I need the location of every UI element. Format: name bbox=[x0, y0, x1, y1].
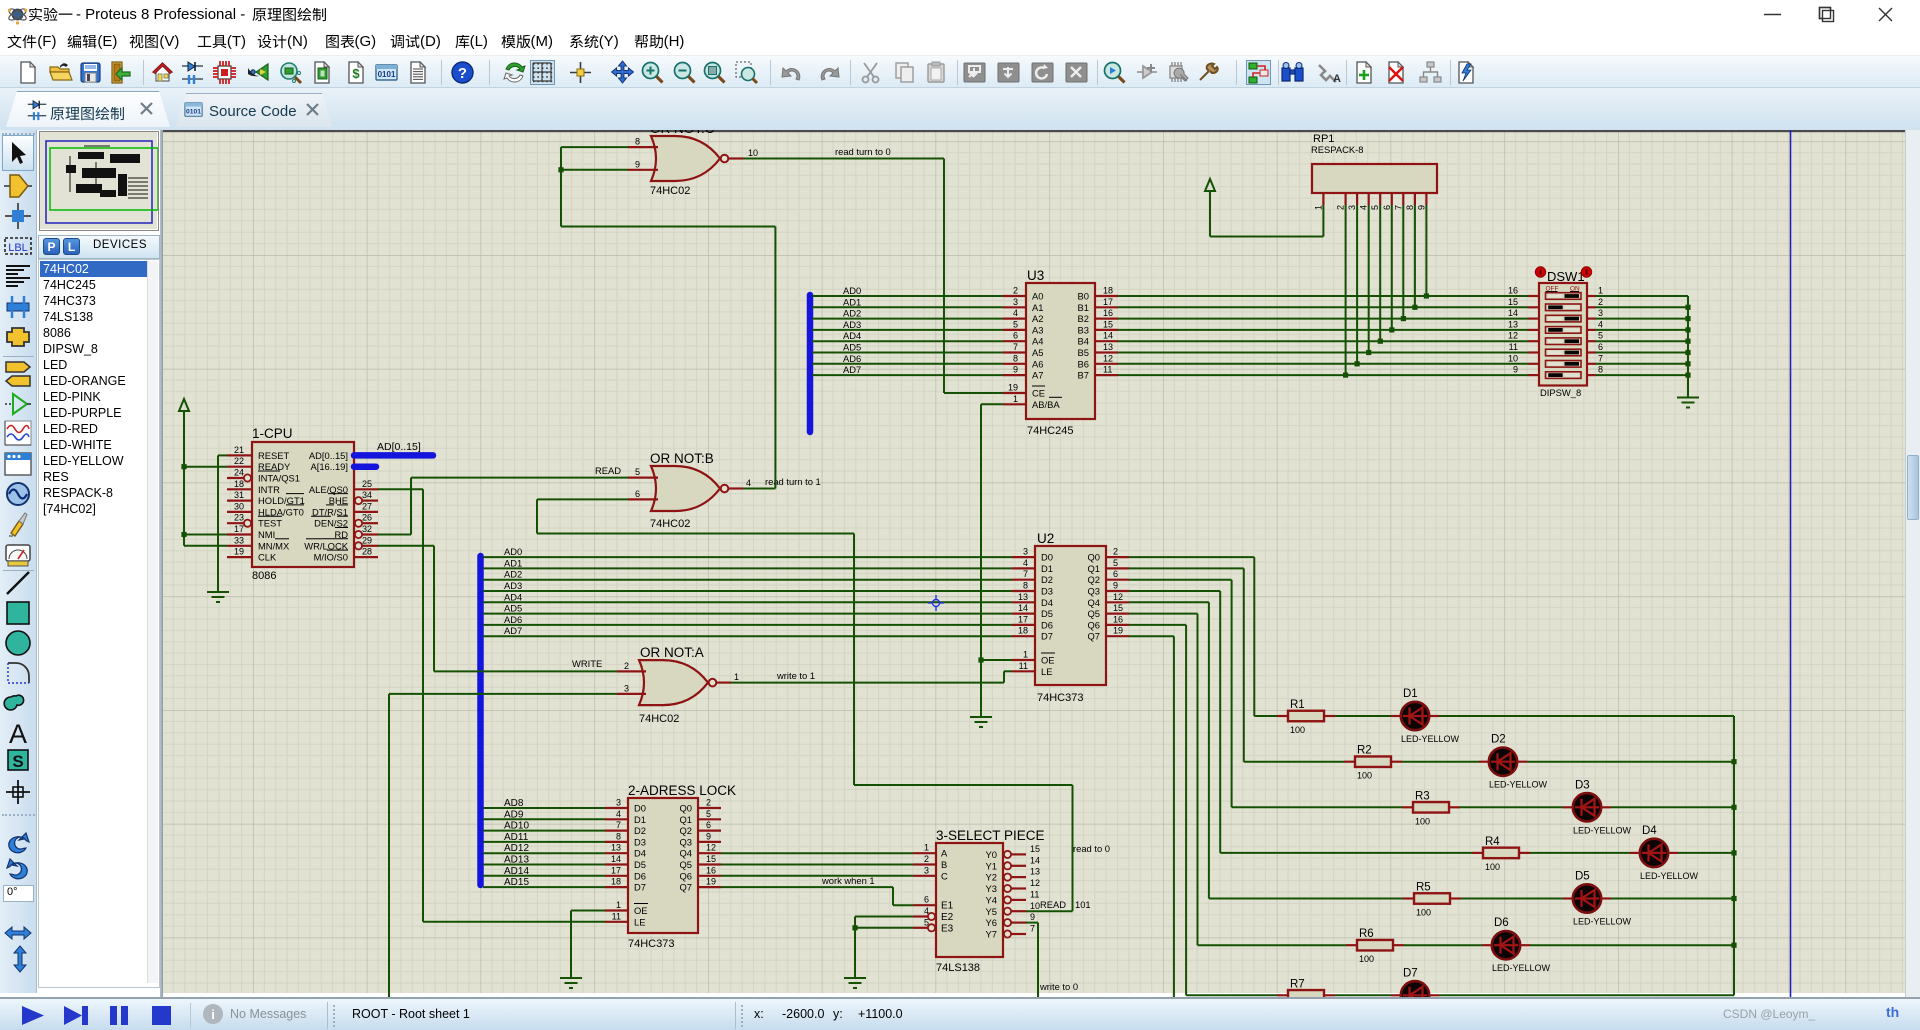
svg-text:6: 6 bbox=[1382, 205, 1392, 210]
svg-text:74HC373: 74HC373 bbox=[1037, 692, 1083, 704]
wire AD1 bus to U3 A1 bbox=[812, 306, 1003, 308]
svg-text:MN/MX: MN/MX bbox=[258, 540, 290, 551]
wire AD8 bus to U1 D0 bbox=[483, 807, 605, 809]
wire Q2 to R3 bbox=[1232, 806, 1402, 808]
svg-text:D2: D2 bbox=[1491, 734, 1506, 746]
svg-text:AD2: AD2 bbox=[504, 569, 522, 580]
wire U2 OE h bbox=[981, 659, 1012, 661]
svg-text:Q3: Q3 bbox=[1087, 586, 1100, 597]
svg-text:4: 4 bbox=[924, 906, 929, 916]
diode D4 LED-YELLOW bbox=[1640, 839, 1668, 867]
wire Q3 to R4 bbox=[1220, 852, 1472, 854]
svg-text:10: 10 bbox=[1508, 353, 1518, 363]
svg-text:B6: B6 bbox=[1078, 358, 1089, 369]
svg-text:4: 4 bbox=[746, 478, 751, 488]
DSW1 left pins bbox=[1528, 295, 1539, 297]
svg-text:D4: D4 bbox=[634, 848, 646, 859]
svg-text:101: 101 bbox=[1075, 899, 1091, 910]
bus A[16..19] from CPU bbox=[354, 463, 376, 470]
svg-text:10: 10 bbox=[748, 148, 758, 158]
svg-text:Y5: Y5 bbox=[986, 906, 997, 917]
junction LED rail 1 bbox=[1731, 759, 1736, 764]
svg-text:AD3: AD3 bbox=[504, 580, 522, 591]
svg-text:Y3: Y3 bbox=[986, 883, 997, 894]
svg-text:9: 9 bbox=[1416, 205, 1426, 210]
svg-text:Y7: Y7 bbox=[986, 929, 997, 940]
svg-text:INTA/QS1: INTA/QS1 bbox=[258, 473, 300, 484]
U1 right pins bbox=[698, 807, 721, 809]
svg-text:18: 18 bbox=[1018, 626, 1028, 636]
wire U1 OE v bbox=[570, 911, 572, 979]
svg-text:74HC02: 74HC02 bbox=[650, 518, 690, 530]
wire read-turn-to-0 h bbox=[743, 158, 944, 160]
R4 pins bbox=[1472, 852, 1483, 854]
wire LED rail bbox=[1733, 716, 1735, 995]
wire RP1 pin6 pullup bbox=[1391, 205, 1393, 330]
svg-text:6: 6 bbox=[1113, 569, 1118, 579]
wire R5 to D5 bbox=[1461, 898, 1563, 900]
svg-text:AD11: AD11 bbox=[504, 832, 529, 843]
svg-text:E1: E1 bbox=[941, 901, 954, 912]
svg-text:1: 1 bbox=[616, 900, 621, 910]
wire WRITE: CPU WR to corner bbox=[378, 545, 434, 547]
svg-text:Y4: Y4 bbox=[986, 894, 997, 905]
wire D2 to rail bbox=[1527, 761, 1734, 763]
svg-text:B2: B2 bbox=[1078, 313, 1089, 324]
svg-text:9: 9 bbox=[1030, 912, 1035, 922]
svg-text:15: 15 bbox=[706, 854, 716, 864]
svg-text:AD1: AD1 bbox=[843, 296, 861, 307]
svg-text:5: 5 bbox=[1113, 558, 1118, 568]
wire AD12 bus to U1 D4 bbox=[483, 852, 605, 854]
svg-text:R2: R2 bbox=[1357, 745, 1372, 757]
svg-text:8: 8 bbox=[1013, 353, 1018, 363]
svg-text:D1: D1 bbox=[634, 814, 646, 825]
svg-text:11: 11 bbox=[1019, 661, 1028, 671]
svg-text:CE: CE bbox=[1032, 388, 1045, 399]
svg-text:M/IO/S0: M/IO/S0 bbox=[314, 552, 348, 563]
DSW1 indicator circle left bbox=[1535, 267, 1545, 277]
svg-text:16: 16 bbox=[1103, 308, 1113, 318]
junction LED rail 3 bbox=[1731, 850, 1736, 855]
svg-text:Y2: Y2 bbox=[986, 872, 997, 883]
svg-text:OE: OE bbox=[1041, 655, 1055, 666]
svg-text:U2: U2 bbox=[1037, 531, 1054, 546]
svg-text:2: 2 bbox=[1113, 547, 1118, 557]
resistor R2 bbox=[1355, 756, 1391, 767]
wire AD0 bus to U3 A0 bbox=[812, 295, 1003, 297]
junction DSW rail 6 bbox=[1685, 361, 1690, 366]
wire feedback h2 bbox=[854, 784, 1073, 786]
svg-text:AD7: AD7 bbox=[504, 625, 522, 636]
wire Q3 vertical bbox=[1219, 591, 1221, 853]
svg-text:D4: D4 bbox=[1041, 597, 1053, 608]
svg-text:14: 14 bbox=[611, 854, 621, 864]
svg-text:LED-YELLOW: LED-YELLOW bbox=[1492, 963, 1551, 973]
svg-text:B4: B4 bbox=[1078, 336, 1089, 347]
svg-text:D5: D5 bbox=[634, 859, 646, 870]
wire READ vertical bbox=[410, 478, 412, 535]
wire U3 B2 to DSW1 bbox=[1118, 318, 1528, 320]
wire feedback to Y5 bbox=[1026, 910, 1073, 912]
junction RP1 pin2 bbox=[1343, 373, 1348, 378]
svg-text:7: 7 bbox=[1023, 569, 1028, 579]
svg-text:Q1: Q1 bbox=[679, 814, 692, 825]
svg-text:AD[0..15]: AD[0..15] bbox=[377, 441, 421, 453]
svg-text:74HC373: 74HC373 bbox=[628, 938, 674, 950]
junction power-READY bbox=[181, 464, 186, 469]
svg-text:D0: D0 bbox=[1041, 552, 1053, 563]
wire DSW1 pin4 to rail bbox=[1596, 329, 1689, 331]
svg-text:D5: D5 bbox=[1041, 608, 1053, 619]
svg-text:17: 17 bbox=[1103, 297, 1113, 307]
svg-text:AD5: AD5 bbox=[504, 603, 522, 614]
wire ALE vertical bbox=[422, 489, 424, 922]
svg-text:5: 5 bbox=[924, 917, 929, 927]
U3 right pins bbox=[1095, 295, 1118, 297]
svg-text:D6: D6 bbox=[1494, 917, 1509, 929]
wire ALE to U1 LE bbox=[423, 921, 605, 923]
svg-text:read turn to 1: read turn to 1 bbox=[765, 476, 821, 487]
svg-text:RESET: RESET bbox=[258, 450, 290, 461]
svg-text:0101: 0101 bbox=[186, 108, 201, 115]
cursor crosshair bbox=[928, 595, 944, 611]
svg-text:4: 4 bbox=[616, 809, 621, 819]
svg-text:5: 5 bbox=[706, 809, 711, 819]
wire Q1 to R2 bbox=[1244, 761, 1344, 763]
R1 pins bbox=[1277, 715, 1288, 717]
wire U3 B0 to DSW1 bbox=[1118, 295, 1528, 297]
wire AD2 bus to U3 A2 bbox=[812, 318, 1003, 320]
wire AD6 bus to U3 A6 bbox=[812, 363, 1003, 365]
junction RP1 pin7 bbox=[1401, 316, 1406, 321]
wire AD11 bus to U1 D3 bbox=[483, 841, 605, 843]
resistor R4 bbox=[1483, 848, 1519, 859]
svg-text:17: 17 bbox=[611, 865, 621, 875]
svg-text:OR NOT:A: OR NOT:A bbox=[640, 645, 704, 660]
svg-text:Q4: Q4 bbox=[1087, 597, 1100, 608]
R6 pins bbox=[1346, 944, 1357, 946]
svg-text:OR NOT:C: OR NOT:C bbox=[650, 130, 715, 136]
svg-text:E2: E2 bbox=[941, 912, 954, 923]
svg-text:AD2: AD2 bbox=[843, 308, 861, 319]
wire U2 Q3 h bbox=[1129, 590, 1220, 592]
wire feedback v2 bbox=[853, 534, 855, 786]
junction power-NMI bbox=[181, 532, 186, 537]
wire D5 to rail bbox=[1611, 898, 1734, 900]
svg-text:OE: OE bbox=[634, 905, 648, 916]
bus AD0-AD7 vertical at U3 bbox=[807, 295, 814, 432]
U3 74HC245 body bbox=[1026, 283, 1095, 419]
resistor-pack RP1 body bbox=[1312, 164, 1437, 193]
svg-text:LED-YELLOW: LED-YELLOW bbox=[1401, 734, 1460, 744]
svg-text:8: 8 bbox=[1023, 581, 1028, 591]
svg-text:14: 14 bbox=[1103, 331, 1113, 341]
wire feedback v3 bbox=[1072, 785, 1074, 911]
svg-text:D1: D1 bbox=[1041, 563, 1053, 574]
wire U1 Q4 to U4 A bbox=[721, 852, 913, 854]
svg-text:A7: A7 bbox=[1032, 370, 1043, 381]
svg-text:DIPSW_8: DIPSW_8 bbox=[1540, 387, 1581, 398]
svg-text:LBL: LBL bbox=[8, 242, 28, 254]
svg-text:B: B bbox=[941, 859, 947, 870]
resistor R5 bbox=[1414, 893, 1450, 904]
svg-text:34: 34 bbox=[362, 490, 372, 500]
wire Q0 to R1 bbox=[1254, 715, 1277, 717]
wire U1 OE h bbox=[571, 910, 605, 912]
svg-text:i: i bbox=[211, 1007, 215, 1022]
svg-text:5: 5 bbox=[635, 467, 640, 477]
svg-text:1: 1 bbox=[1023, 650, 1028, 660]
wire RP1 pin8 pullup bbox=[1414, 205, 1416, 307]
svg-text:Y0: Y0 bbox=[986, 849, 997, 860]
junction DSW rail 5 bbox=[1685, 350, 1690, 355]
wire U2 Q1 h bbox=[1129, 567, 1244, 569]
wire U1 Q7 h bbox=[721, 886, 893, 888]
svg-text:7: 7 bbox=[1030, 924, 1035, 934]
wire feedback gateB in6 bbox=[537, 498, 628, 500]
svg-text:3: 3 bbox=[1013, 297, 1018, 307]
resistor R1 bbox=[1288, 711, 1324, 722]
svg-text:2: 2 bbox=[706, 798, 711, 808]
svg-text:4: 4 bbox=[1023, 558, 1028, 568]
wire gate A in3 vertical to bottom bbox=[388, 694, 390, 997]
wire read-turn-to-1 h bbox=[743, 488, 775, 490]
svg-text:100: 100 bbox=[1415, 816, 1430, 826]
svg-text:12: 12 bbox=[1113, 592, 1123, 602]
svg-text:Y1: Y1 bbox=[986, 860, 997, 871]
svg-text:3: 3 bbox=[1347, 205, 1357, 210]
svg-text:B3: B3 bbox=[1078, 324, 1089, 335]
wire write-to-1: gate A out to U2 LE bbox=[731, 682, 1004, 684]
svg-text:4: 4 bbox=[1598, 319, 1603, 329]
svg-text:8: 8 bbox=[1598, 365, 1603, 375]
svg-text:4: 4 bbox=[1359, 205, 1369, 210]
wire Q5 vertical bbox=[1197, 614, 1199, 946]
wire DSW1 pin7 to rail bbox=[1596, 363, 1689, 365]
svg-text:DSW1: DSW1 bbox=[1547, 269, 1585, 284]
svg-text:AD5: AD5 bbox=[843, 342, 861, 353]
svg-text:U3: U3 bbox=[1027, 268, 1044, 283]
svg-text:A1: A1 bbox=[1032, 302, 1043, 313]
wire RESET to ground v bbox=[217, 455, 219, 592]
svg-text:WRITE: WRITE bbox=[572, 658, 602, 669]
resistor R6 bbox=[1357, 940, 1393, 951]
wire R4 to D4 bbox=[1530, 852, 1630, 854]
svg-text:D7: D7 bbox=[1403, 967, 1418, 979]
svg-text:R7: R7 bbox=[1290, 978, 1305, 990]
wire AD3 bus to U2 D3 bbox=[483, 590, 1012, 592]
svg-text:AB/BA: AB/BA bbox=[1032, 399, 1060, 410]
U2 74HC373 body bbox=[1035, 546, 1106, 685]
junction RP1 pin6 bbox=[1389, 327, 1394, 332]
wire U3 B6 to DSW1 bbox=[1118, 363, 1528, 365]
svg-text:A: A bbox=[941, 848, 948, 859]
wire R1 to D1 bbox=[1335, 715, 1391, 717]
wire DSW ground rail bbox=[1687, 296, 1689, 398]
wire DSW1 pin8 to rail bbox=[1596, 374, 1689, 376]
U4 right pins bbox=[1004, 851, 1011, 858]
DSW1 right pins bbox=[1587, 295, 1596, 297]
svg-text:AD7: AD7 bbox=[843, 364, 861, 375]
svg-text:Q2: Q2 bbox=[1087, 574, 1100, 585]
wire AD0 bus to U2 D0 bbox=[483, 556, 1012, 558]
CPU left pins bbox=[227, 454, 252, 456]
wire power to MN/MX bbox=[184, 545, 227, 547]
svg-text:NMI: NMI bbox=[258, 529, 275, 540]
svg-text:100: 100 bbox=[1416, 908, 1431, 918]
svg-text:D3: D3 bbox=[634, 836, 646, 847]
U3 left pins bbox=[1003, 295, 1026, 297]
svg-text:74HC02: 74HC02 bbox=[639, 713, 679, 725]
svg-text:A5: A5 bbox=[1032, 347, 1043, 358]
RP1 pins bbox=[1322, 193, 1324, 205]
svg-text:AD13: AD13 bbox=[504, 855, 529, 866]
wire gate C in9 bbox=[561, 169, 628, 171]
svg-text:5: 5 bbox=[1598, 331, 1603, 341]
D4 pins bbox=[1630, 852, 1640, 854]
wire RP1 pin5 pullup bbox=[1379, 205, 1381, 341]
svg-text:100: 100 bbox=[1485, 862, 1500, 872]
R5 pins bbox=[1403, 897, 1414, 899]
wire AD2 bus to U2 D2 bbox=[483, 579, 1012, 581]
wire Q7 jog v bbox=[892, 887, 894, 905]
diode D6 LED-YELLOW bbox=[1492, 931, 1520, 959]
svg-text:LE: LE bbox=[1041, 666, 1052, 677]
svg-text:13: 13 bbox=[1508, 319, 1518, 329]
wire write-to-1 jog bbox=[1003, 671, 1005, 682]
power terminal near CPU bbox=[179, 399, 189, 412]
wire AD1 bus to U2 D1 bbox=[483, 567, 1012, 569]
wire AD7 bus to U2 D7 bbox=[483, 635, 1012, 637]
svg-text:D4: D4 bbox=[1642, 825, 1657, 837]
svg-text:AD6: AD6 bbox=[843, 353, 861, 364]
wire E3 h bbox=[855, 927, 913, 929]
wire RP1 pin4 pullup bbox=[1368, 205, 1370, 353]
junction DSW rail 4 bbox=[1685, 339, 1690, 344]
wire U3 AB/BA h bbox=[981, 403, 1003, 405]
svg-text:1: 1 bbox=[1598, 286, 1603, 296]
svg-text:R4: R4 bbox=[1485, 836, 1500, 848]
svg-text:D3: D3 bbox=[1041, 586, 1053, 597]
svg-text:3: 3 bbox=[1598, 308, 1603, 318]
svg-text:A2: A2 bbox=[1032, 313, 1043, 324]
svg-text:D5: D5 bbox=[1575, 871, 1590, 883]
D1 pins bbox=[1391, 715, 1401, 717]
U1 left pins bbox=[605, 807, 628, 809]
wire AD4 bus to U3 A4 bbox=[812, 340, 1003, 342]
gate C output pin bbox=[728, 157, 743, 159]
DSW1 DIPSW_8 body bbox=[1539, 283, 1587, 386]
svg-text:3: 3 bbox=[624, 683, 629, 693]
wire READ: CPU RD stub to corner bbox=[378, 534, 411, 536]
svg-text:TEST: TEST bbox=[258, 518, 282, 529]
svg-text:D6: D6 bbox=[1041, 619, 1053, 630]
gate A input pins bbox=[617, 670, 646, 672]
ground below CPU bbox=[207, 592, 229, 602]
wire write-to-1 to LE stub bbox=[1004, 670, 1012, 672]
svg-text:Q0: Q0 bbox=[1087, 552, 1100, 563]
resistor R7 bbox=[1288, 990, 1324, 1001]
svg-text:read turn to 0: read turn to 0 bbox=[835, 146, 891, 157]
R7 pins bbox=[1277, 994, 1288, 996]
ground below U2 bbox=[970, 717, 992, 727]
wire read-turn-to-0 v bbox=[943, 159, 945, 394]
ground below U1 bbox=[560, 978, 582, 988]
svg-text:B5: B5 bbox=[1078, 347, 1089, 358]
svg-text:1: 1 bbox=[734, 672, 739, 682]
bus AD vertical main bbox=[477, 556, 484, 885]
wire power to NMI bbox=[184, 534, 227, 536]
wire feedback v1 bbox=[536, 499, 538, 533]
svg-text:AD6: AD6 bbox=[504, 614, 522, 625]
junction DSW rail 7 bbox=[1685, 373, 1690, 378]
R2 pins bbox=[1344, 761, 1355, 763]
svg-text:AD3: AD3 bbox=[843, 319, 861, 330]
power terminal near RP1 bbox=[1205, 179, 1215, 192]
wire D6 to rail bbox=[1530, 944, 1734, 946]
svg-text:14: 14 bbox=[1018, 603, 1028, 613]
wire Q4 to R5 bbox=[1209, 898, 1403, 900]
diode D3 LED-YELLOW bbox=[1573, 793, 1601, 821]
svg-text:5: 5 bbox=[1013, 319, 1018, 329]
wire RP1 pin9 pullup bbox=[1425, 205, 1427, 296]
svg-text:A4: A4 bbox=[1032, 336, 1043, 347]
svg-text:16: 16 bbox=[706, 865, 716, 875]
svg-text:A0: A0 bbox=[1032, 291, 1043, 302]
junction RP1 pin4 bbox=[1366, 350, 1371, 355]
wire write-to-0 v bbox=[1037, 923, 1039, 997]
wire R6 to D6 bbox=[1404, 944, 1482, 946]
svg-text:READ: READ bbox=[595, 465, 621, 476]
svg-text:E3: E3 bbox=[941, 923, 954, 934]
wire AD14 bus to U1 D6 bbox=[483, 875, 605, 877]
wire AD5 bus to U2 D5 bbox=[483, 613, 1012, 615]
wire DSW1 pin2 to rail bbox=[1596, 306, 1689, 308]
wire power rail vertical bbox=[183, 411, 185, 546]
svg-text:S: S bbox=[12, 752, 23, 771]
svg-text:RESPACK-8: RESPACK-8 bbox=[1311, 144, 1363, 155]
wire gate C in v bbox=[560, 147, 562, 226]
sheet border line bbox=[1790, 130, 1792, 997]
svg-text:7: 7 bbox=[1013, 342, 1018, 352]
svg-text:100: 100 bbox=[1357, 771, 1372, 781]
svg-text:14: 14 bbox=[1030, 855, 1040, 865]
svg-text:D2: D2 bbox=[634, 825, 646, 836]
svg-text:1-CPU: 1-CPU bbox=[252, 426, 293, 441]
wire DSW1 pin3 to rail bbox=[1596, 318, 1689, 320]
ground below U4 bbox=[844, 978, 866, 988]
svg-text:9: 9 bbox=[1113, 581, 1118, 591]
wire R2 to D2 bbox=[1402, 761, 1479, 763]
svg-text:100: 100 bbox=[1359, 954, 1374, 964]
svg-text:AD8: AD8 bbox=[504, 798, 524, 809]
svg-text:Y6: Y6 bbox=[986, 917, 997, 928]
gate B input pins bbox=[628, 477, 658, 479]
wire U1 Q6 to U4 C bbox=[721, 875, 913, 877]
svg-text:33: 33 bbox=[234, 535, 244, 545]
U2 right pins bbox=[1106, 556, 1129, 558]
ground DSW rail bbox=[1677, 398, 1699, 408]
svg-text:12: 12 bbox=[1030, 878, 1040, 888]
wire AD15 bus to U1 D7 bbox=[483, 886, 605, 888]
svg-text:9: 9 bbox=[635, 159, 640, 169]
svg-text:0101: 0101 bbox=[378, 70, 396, 79]
svg-text:write to 1: write to 1 bbox=[776, 670, 815, 681]
svg-text:11: 11 bbox=[1103, 365, 1112, 375]
wire E2 h bbox=[855, 916, 913, 918]
wire WRITE to gate A in2 bbox=[434, 670, 617, 672]
